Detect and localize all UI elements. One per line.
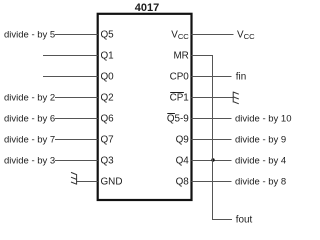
svg-text:divide - by 2: divide - by 2 bbox=[4, 93, 55, 104]
svg-text:Q0: Q0 bbox=[101, 72, 115, 83]
label divide - by 8 bbox=[235, 177, 286, 188]
svg-text:Q6: Q6 bbox=[101, 114, 115, 125]
svg-text:divide - by 7: divide - by 7 bbox=[4, 135, 55, 146]
IC U1 body bbox=[98, 14, 192, 200]
svg-text:MR: MR bbox=[173, 51, 188, 62]
svg-text:Q1: Q1 bbox=[101, 51, 115, 62]
label divide - by 9 bbox=[235, 135, 286, 146]
ground symbol left bbox=[71, 172, 77, 184]
label divide - by 4 bbox=[235, 156, 286, 167]
pin CP1 with overline bbox=[170, 93, 190, 104]
svg-text:divide - by 6: divide - by 6 bbox=[4, 114, 55, 125]
net label fout bbox=[236, 215, 253, 226]
svg-text:VCC: VCC bbox=[171, 30, 189, 42]
svg-text:fout: fout bbox=[236, 215, 253, 226]
pin Q7 bbox=[101, 135, 114, 146]
svg-text:4017: 4017 bbox=[135, 2, 159, 14]
wire fout horizontal bbox=[212, 219, 232, 221]
pin Q5-9 with overline bbox=[167, 114, 189, 125]
label divide - by 6 bbox=[4, 114, 55, 125]
pin Q1 bbox=[101, 51, 115, 62]
svg-text:Q3: Q3 bbox=[101, 156, 115, 167]
wire Q2 output bbox=[55, 97, 98, 99]
wire Q9 output bbox=[191, 139, 231, 141]
wire Q3 output bbox=[55, 160, 98, 162]
wire Q7 output bbox=[55, 139, 98, 141]
svg-text:Q8: Q8 bbox=[176, 177, 190, 188]
wire Q6 output bbox=[55, 118, 98, 120]
wire Q1 stub bbox=[43, 55, 98, 57]
pin VCC bbox=[171, 30, 189, 42]
wire feedback vertical MR to fout bbox=[212, 55, 214, 220]
pin Q6 bbox=[101, 114, 115, 125]
svg-text:Q9: Q9 bbox=[176, 135, 190, 146]
svg-text:divide - by 9: divide - by 9 bbox=[235, 135, 286, 146]
svg-text:divide - by 3: divide - by 3 bbox=[4, 156, 55, 167]
pin Q4 bbox=[176, 156, 190, 167]
net label fin bbox=[236, 72, 246, 83]
net label VCC bbox=[237, 30, 255, 42]
pin Q9 bbox=[176, 135, 190, 146]
pin Q0 bbox=[101, 72, 115, 83]
svg-text:divide - by 8: divide - by 8 bbox=[235, 177, 286, 188]
ground symbol right bbox=[233, 92, 239, 104]
svg-text:divide - by 5: divide - by 5 bbox=[4, 30, 55, 41]
label divide - by 3 bbox=[4, 156, 55, 167]
wire Q5 output bbox=[55, 34, 98, 36]
svg-text:CP1: CP1 bbox=[170, 93, 190, 104]
wire Q0 stub bbox=[43, 76, 98, 78]
wire GND bbox=[77, 181, 98, 183]
svg-text:divide - by 10: divide - by 10 bbox=[235, 114, 292, 125]
wire MR to feedback line bbox=[191, 55, 213, 57]
junction dot MR-Q4 bbox=[211, 158, 214, 161]
wire VCC bbox=[191, 34, 233, 36]
svg-text:Q7: Q7 bbox=[101, 135, 114, 146]
pin Q8 bbox=[176, 177, 190, 188]
wire Q4 output bbox=[191, 160, 231, 162]
svg-text:VCC: VCC bbox=[237, 30, 255, 42]
pin MR bbox=[173, 51, 188, 62]
pin Q2 bbox=[101, 93, 114, 104]
svg-text:fin: fin bbox=[236, 72, 246, 83]
label divide - by 7 bbox=[4, 135, 55, 146]
svg-text:Q5: Q5 bbox=[101, 30, 115, 41]
wire CP1 bbox=[191, 97, 233, 99]
svg-text:Q4: Q4 bbox=[176, 156, 190, 167]
pin Q5 bbox=[101, 30, 115, 41]
label divide - by 10 bbox=[235, 114, 292, 125]
pin CP0 bbox=[170, 72, 190, 83]
label divide - by 5 bbox=[4, 30, 55, 41]
wire Q5-9 output bbox=[191, 118, 231, 120]
svg-text:Q2: Q2 bbox=[101, 93, 114, 104]
svg-text:GND: GND bbox=[101, 177, 123, 188]
svg-text:CP0: CP0 bbox=[170, 72, 190, 83]
pin Q3 bbox=[101, 156, 115, 167]
pin GND bbox=[101, 177, 123, 188]
wire Q8 output bbox=[191, 181, 231, 183]
svg-text:Q5-9: Q5-9 bbox=[167, 114, 189, 125]
wire CP0 clock input bbox=[191, 76, 231, 78]
label divide - by 2 bbox=[4, 93, 55, 104]
svg-text:divide - by 4: divide - by 4 bbox=[235, 156, 286, 167]
IC U1 4017 label bbox=[135, 2, 159, 14]
